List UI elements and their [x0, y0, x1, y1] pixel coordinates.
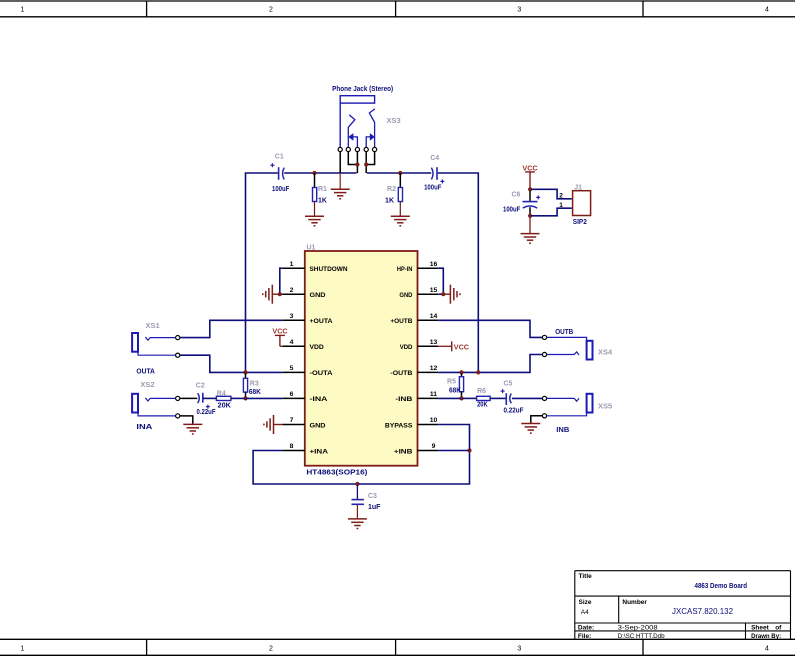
junction — [459, 396, 463, 400]
svg-text:16: 16 — [430, 261, 438, 268]
svg-text:1: 1 — [21, 7, 25, 14]
svg-text:5: 5 — [290, 365, 294, 372]
junction — [467, 448, 471, 452]
svg-text:C2: C2 — [196, 382, 205, 389]
capacitor C2 0.22uF — [196, 382, 216, 416]
wire pin14 +OUTB to XS4 sleeve — [438, 320, 542, 337]
svg-text:R3: R3 — [250, 381, 259, 388]
svg-text:12: 12 — [430, 365, 438, 372]
IC U1 HT4863(SOP16) body — [305, 245, 418, 477]
svg-text:+OUTB: +OUTB — [390, 318, 412, 325]
pin 9 +INB — [394, 443, 438, 455]
svg-text:A4: A4 — [581, 609, 589, 616]
connector XS5 jack INB — [542, 394, 612, 434]
svg-text:4: 4 — [765, 7, 769, 14]
pin 15 GND — [399, 287, 438, 299]
svg-text:+INB: +INB — [394, 448, 413, 455]
wire -OUTA net up left side to C1 — [246, 173, 278, 371]
svg-text:Number: Number — [622, 599, 647, 606]
resistor R1 1K — [313, 173, 328, 216]
svg-text:R4: R4 — [217, 390, 226, 397]
svg-text:2: 2 — [269, 646, 273, 653]
pin 16 HP-IN — [397, 261, 438, 273]
svg-text:VDD: VDD — [310, 344, 324, 351]
svg-text:0.22uF: 0.22uF — [197, 409, 217, 416]
svg-text:XS1: XS1 — [146, 321, 160, 330]
svg-text:VCC: VCC — [454, 342, 469, 351]
svg-text:R1: R1 — [318, 186, 327, 193]
ground — [348, 519, 367, 529]
wire to ground bars right — [444, 293, 450, 295]
wire jack ring node to C4 — [367, 172, 431, 174]
svg-text:SHUTDOWN: SHUTDOWN — [310, 266, 348, 273]
svg-text:6: 6 — [290, 391, 294, 398]
pin 4 VDD — [282, 339, 324, 351]
svg-text:-OUTA: -OUTA — [310, 370, 333, 377]
wire pin7 GND to ground bars — [274, 424, 283, 426]
ground — [450, 285, 460, 304]
wire C4 right down to -OUTB — [438, 173, 479, 371]
svg-text:INA: INA — [136, 424, 152, 431]
capacitor C4 100uF — [424, 155, 444, 192]
ground — [264, 415, 274, 434]
svg-text:-INB: -INB — [395, 396, 412, 403]
svg-text:4863 Demo Board: 4863 Demo Board — [695, 583, 748, 590]
svg-text:3: 3 — [517, 7, 521, 14]
pin 5 -OUTA — [282, 365, 332, 377]
pin 10 BYPASS — [385, 417, 438, 429]
wire XS5 sleeve to ground — [531, 416, 543, 423]
wire C2 to R4 — [203, 397, 217, 399]
pin 2 GND — [282, 287, 325, 299]
junction — [312, 171, 316, 175]
wire jack tip to left node — [356, 152, 358, 173]
svg-text:XS3: XS3 — [387, 116, 401, 125]
svg-text:R6: R6 — [477, 388, 486, 395]
svg-text:R2: R2 — [387, 186, 396, 193]
capacitor C1 100uF — [270, 154, 290, 194]
power VCC pin4 — [272, 326, 287, 346]
wire jack tip switch contacts — [348, 152, 356, 165]
wire pin9 +INB — [438, 450, 468, 452]
svg-text:2: 2 — [559, 192, 563, 199]
pin 7 GND — [282, 417, 325, 429]
svg-text:VCC: VCC — [522, 163, 537, 172]
svg-text:Sheet: Sheet — [751, 625, 770, 632]
svg-text:8: 8 — [290, 443, 294, 450]
svg-text:1: 1 — [559, 202, 563, 209]
svg-text:C3: C3 — [368, 493, 377, 500]
svg-text:68K: 68K — [249, 389, 261, 396]
svg-text:68K: 68K — [449, 388, 461, 395]
svg-text:4: 4 — [290, 339, 294, 346]
junction — [355, 482, 359, 486]
pin 1 SHUTDOWN — [282, 261, 347, 273]
svg-text:JXCAS7.820.132: JXCAS7.820.132 — [672, 607, 734, 616]
svg-text:14: 14 — [430, 313, 438, 320]
wire XS1 tip to pin3 +OUTA — [180, 320, 282, 337]
junction — [398, 171, 402, 175]
wire C6 to ground — [529, 217, 531, 233]
wire XS1 sleeve to pin5 -OUTA — [180, 355, 282, 372]
power VCC pin13 — [438, 341, 469, 351]
svg-text:OUTA: OUTA — [136, 369, 155, 376]
junction — [441, 292, 445, 296]
resistor R6 20K — [477, 388, 491, 409]
svg-text:XS4: XS4 — [598, 348, 613, 357]
junction — [243, 396, 247, 400]
wire VCC node to J1 pin 2 — [531, 189, 572, 199]
svg-text:-OUTB: -OUTB — [390, 370, 412, 377]
svg-text:10: 10 — [430, 417, 438, 424]
svg-text:100uF: 100uF — [503, 206, 521, 213]
wire to ground bars — [272, 293, 279, 295]
junction — [364, 162, 368, 166]
svg-text:+INA: +INA — [310, 448, 329, 455]
wire R5 node to R6 — [463, 397, 477, 399]
pin 8 +INA — [282, 443, 328, 455]
svg-text:D:\SC HTTT.Ddb: D:\SC HTTT.Ddb — [618, 633, 665, 640]
connector XS4 jack OUTB — [542, 329, 613, 360]
resistor R5 68K — [447, 373, 464, 397]
junction — [528, 214, 532, 218]
power VCC top — [522, 163, 537, 188]
pin 13 VDD — [400, 339, 439, 351]
wire bottom bus to pin9 +INB — [359, 452, 470, 484]
junction — [528, 187, 532, 191]
svg-text:Drawn By:: Drawn By: — [751, 633, 781, 640]
svg-text:9: 9 — [432, 443, 436, 450]
wire C6 low node to J1 pin 1 — [531, 208, 572, 216]
junction — [278, 292, 282, 296]
wire pin8 +INA down to bottom bus — [253, 451, 356, 485]
svg-text:OUTB: OUTB — [555, 329, 573, 336]
connector XS3 phone jack stereo — [332, 86, 401, 151]
connector J1 SIP2 — [559, 185, 590, 227]
ground — [331, 189, 350, 199]
wire pin11 -INB — [438, 397, 460, 399]
svg-text:2: 2 — [269, 7, 273, 14]
svg-text:File:: File: — [578, 633, 591, 640]
svg-text:R5: R5 — [447, 378, 456, 385]
svg-text:Date:: Date: — [578, 625, 594, 632]
svg-text:VDD: VDD — [400, 344, 413, 351]
svg-text:20K: 20K — [477, 402, 488, 409]
svg-text:GND: GND — [310, 292, 326, 299]
junction — [243, 370, 247, 374]
svg-text:15: 15 — [430, 287, 438, 294]
svg-text:HT4863(SOP16): HT4863(SOP16) — [306, 470, 367, 477]
wire jack ring to right node — [365, 152, 367, 173]
connector XS2 jack INA — [132, 380, 180, 431]
wire XS2 sleeve to ground — [180, 416, 193, 424]
capacitor C3 1uF — [352, 485, 382, 518]
svg-text:U1: U1 — [307, 245, 316, 252]
svg-text:1K: 1K — [318, 197, 327, 204]
svg-text:7: 7 — [290, 417, 294, 424]
svg-text:4: 4 — [765, 646, 769, 653]
wire XS2 tip to C2 — [180, 397, 198, 399]
svg-text:3: 3 — [517, 646, 521, 653]
wire pin15 GND stub — [438, 293, 443, 295]
ground — [305, 216, 324, 226]
svg-text:VCC: VCC — [272, 326, 287, 335]
svg-text:1: 1 — [290, 261, 294, 268]
ground — [391, 216, 410, 226]
svg-text:100uF: 100uF — [272, 186, 290, 193]
svg-text:1uF: 1uF — [368, 504, 381, 511]
svg-text:0.22uF: 0.22uF — [504, 408, 525, 415]
wire C5 to XS5 tip — [512, 397, 543, 399]
svg-text:C4: C4 — [430, 155, 439, 162]
svg-text:20K: 20K — [218, 402, 232, 409]
svg-text:3-Sep-2008: 3-Sep-2008 — [618, 625, 658, 632]
pin 11 -INB — [395, 391, 438, 403]
wire pin10 BYPASS down — [438, 425, 469, 450]
ground — [521, 234, 540, 244]
svg-text:3: 3 — [290, 313, 294, 320]
junction — [459, 370, 463, 374]
wire pin2 GND stub — [280, 293, 283, 295]
ground — [521, 424, 540, 434]
svg-text:of: of — [775, 625, 782, 632]
capacitor C5 0.22uF — [501, 381, 525, 415]
wire R4 to -INA node — [231, 397, 245, 399]
svg-text:SIP2: SIP2 — [573, 219, 587, 226]
resistor R2 1K — [385, 173, 402, 216]
junction — [476, 370, 480, 374]
svg-text:INB: INB — [556, 427, 569, 434]
junction — [355, 162, 359, 166]
svg-text:BYPASS: BYPASS — [385, 422, 413, 429]
svg-text:C1: C1 — [275, 154, 284, 161]
wire jack sleeve to ground — [339, 152, 341, 173]
svg-text:C5: C5 — [504, 381, 513, 388]
svg-text:13: 13 — [430, 339, 438, 346]
svg-text:Phone Jack (Stereo): Phone Jack (Stereo) — [332, 86, 393, 93]
wire pin16 HP-IN to GND node — [438, 268, 443, 293]
wire jack ring switch contacts — [367, 152, 374, 165]
svg-text:2: 2 — [290, 287, 294, 294]
svg-text:C6: C6 — [512, 192, 521, 199]
svg-text:XS5: XS5 — [598, 401, 612, 410]
pin 14 +OUTB — [390, 313, 438, 325]
wire pin12 -OUTB to XS4 tip — [438, 355, 542, 373]
capacitor C6 100uF — [503, 191, 540, 215]
svg-text:J1: J1 — [574, 185, 582, 192]
wire C1 right to jack tip node — [284, 172, 356, 174]
svg-text:HP-IN: HP-IN — [397, 266, 413, 273]
resistor R4 20K — [216, 390, 231, 409]
pin 12 -OUTB — [390, 365, 438, 377]
wire R3 node to pin6 -INA — [246, 397, 283, 399]
wire R6 to C5 — [490, 397, 506, 399]
ground — [183, 424, 202, 434]
svg-text:-INA: -INA — [310, 396, 328, 403]
svg-text:1: 1 — [21, 646, 25, 653]
svg-text:GND: GND — [310, 422, 326, 429]
connector XS1 jack OUTA — [132, 321, 180, 376]
svg-text:+OUTA: +OUTA — [310, 318, 333, 325]
svg-text:GND: GND — [399, 292, 412, 299]
svg-text:Size: Size — [579, 599, 592, 606]
svg-text:100uF: 100uF — [424, 184, 442, 191]
svg-text:1K: 1K — [385, 197, 394, 204]
svg-text:Title: Title — [579, 573, 593, 580]
wire pin1 SHUTDOWN to GND node — [280, 268, 283, 293]
svg-text:XS2: XS2 — [140, 380, 154, 389]
pin 3 +OUTA — [282, 313, 332, 325]
resistor R3 68K — [243, 373, 261, 397]
svg-text:11: 11 — [430, 391, 437, 398]
pin 6 -INA — [282, 391, 327, 403]
ground — [263, 285, 273, 304]
